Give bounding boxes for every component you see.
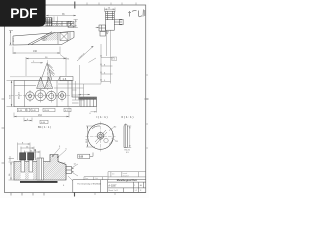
svg-text:190: 190 [33, 50, 38, 53]
detail II right dim [128, 126, 132, 148]
title block small cell texts [108, 184, 142, 192]
top lever side view V1 [30, 21, 75, 26]
svg-text:Metallurgical Unit: Metallurgical Unit [117, 179, 137, 182]
top-right stud body [106, 11, 115, 30]
svg-text:19.60: 19.60 [44, 110, 50, 112]
title block main box [73, 180, 146, 193]
detail I finish box [78, 153, 93, 159]
detail I left dim [86, 126, 95, 147]
short dimension 4 [24, 118, 32, 122]
stud left arrow [96, 27, 100, 28]
V2 hatch patch [46, 33, 58, 41]
section view leader lines up-right [52, 148, 66, 159]
V2 dimension line below (190) [13, 47, 60, 55]
svg-text:0.5: 0.5 [126, 152, 130, 154]
main view hole circles [26, 89, 66, 103]
second lever view V2 [13, 31, 74, 45]
svg-text:A4: A4 [140, 184, 142, 187]
signature squiggle [128, 10, 145, 17]
svg-text:12.7: 12.7 [13, 37, 15, 42]
polished note second stroke [89, 58, 97, 63]
V2 left vertical dimension [9, 31, 13, 46]
svg-text:21/02/17: 21/02/17 [123, 175, 129, 177]
section right protrusion [66, 167, 72, 174]
stud left fitting [99, 25, 106, 36]
frame zone ticks top [87, 3, 136, 6]
frame zone ticks bottom left [11, 193, 44, 196]
leader texts [59, 146, 68, 151]
svg-text:R1: R1 [116, 141, 119, 143]
svg-text:PDF: PDF [10, 6, 37, 21]
svg-text:A-0287: A-0287 [108, 185, 117, 188]
svg-text:M5x0.8: M5x0.8 [19, 91, 21, 99]
section right dimension arrows [68, 164, 78, 182]
detail I inner features [95, 130, 108, 144]
V1 right end block [68, 22, 74, 28]
section view main block outline [14, 155, 66, 181]
stud vertical dim chain [100, 31, 114, 84]
frame zone ticks left [2, 99, 5, 163]
detail II texts below [125, 150, 131, 155]
section right tiny texts [63, 164, 77, 188]
title block upper strip texts [85, 178, 98, 180]
section stacked dim texts [22, 142, 33, 152]
long dimension under main view [14, 108, 69, 118]
main view internal lines [14, 81, 79, 107]
section bottom thick bar [20, 181, 58, 183]
V1 hatch patch [53, 24, 62, 27]
V1 dimension line above [46, 15, 76, 22]
svg-text:II ( 1 : 1 ): II ( 1 : 1 ) [122, 115, 134, 119]
svg-text:I ( 1 : 1 ): I ( 1 : 1 ) [97, 115, 108, 119]
frame centering mark bottom [74, 190, 76, 197]
V2 internal details [42, 32, 70, 45]
section block hatching [14, 155, 65, 180]
section slot left [21, 158, 44, 180]
svg-text:Dte: Dte [112, 173, 115, 176]
diagonal leader polished note [77, 46, 94, 61]
hatched cone pair [37, 77, 53, 89]
drawing frame border [5, 5, 146, 193]
title block right upper rows [108, 172, 146, 181]
main view left vertical dimension [7, 81, 15, 107]
detail II part [124, 124, 127, 148]
svg-text:6: 6 [63, 185, 65, 187]
small boxed dim right of short dim [40, 120, 48, 123]
frame zone ticks bottom right [95, 193, 115, 196]
detail I right leaders [109, 128, 116, 141]
top-right stud view dim 24 [105, 8, 116, 13]
svg-text:Issued: Issued [123, 173, 128, 175]
right extension top dim [79, 94, 91, 95]
chain top small box [112, 57, 117, 60]
svg-text:Sheet 1 of 1: Sheet 1 of 1 [108, 189, 118, 192]
V2 small leader right [60, 55, 66, 60]
svg-text:The University of Sheffield: The University of Sheffield [77, 182, 100, 185]
stud right step lines [114, 19, 123, 25]
section left dimension [9, 162, 15, 180]
boxed reference dims row [17, 108, 71, 112]
V1 small bracket [46, 18, 52, 26]
right extension under dim [91, 107, 97, 113]
section left small marks [9, 156, 15, 161]
boxed dim texts [18, 110, 69, 112]
long thin dim line to finish box [10, 76, 60, 78]
svg-text:6: 6 [90, 113, 92, 115]
PDF badge [0, 0, 46, 27]
right extension columns [79, 97, 97, 107]
main view horizontal centreline [11, 95, 70, 97]
svg-text:1:2: 1:2 [135, 190, 138, 192]
detail I centrelines [86, 122, 116, 152]
svg-text:polished: polished [78, 53, 85, 59]
svg-text:0.8: 0.8 [79, 155, 84, 159]
svg-text:3: 3 [59, 146, 61, 148]
svg-text:1: 1 [134, 185, 135, 187]
svg-text:B4 ( 1 : 1 ): B4 ( 1 : 1 ) [38, 125, 51, 129]
cone tall triangle [41, 60, 55, 90]
right upper rows texts [112, 173, 129, 178]
V1 right vertical dimension [74, 20, 78, 28]
chain texts [104, 59, 116, 82]
detail I hub [97, 132, 104, 139]
detail I main circle [88, 124, 114, 150]
svg-text:R5: R5 [67, 59, 70, 61]
main view top dimension 36 [26, 57, 66, 76]
main view outline [14, 81, 97, 107]
right nested dimension corners [54, 65, 101, 106]
svg-text:6: 6 [66, 148, 68, 150]
surface finish box 1.6 [59, 77, 74, 81]
title block upper strip [84, 177, 108, 180]
frame centering mark top [74, 2, 76, 9]
svg-text:R2: R2 [114, 126, 117, 128]
stud small weld triangle [106, 32, 109, 35]
frame zone ticks right [145, 75, 149, 148]
section view stacked dimensions above [18, 143, 41, 161]
svg-text:1.5: 1.5 [112, 59, 116, 61]
section top plug left [20, 149, 36, 160]
detail I leader texts [114, 126, 119, 143]
second small dim with arrow [31, 62, 43, 63]
